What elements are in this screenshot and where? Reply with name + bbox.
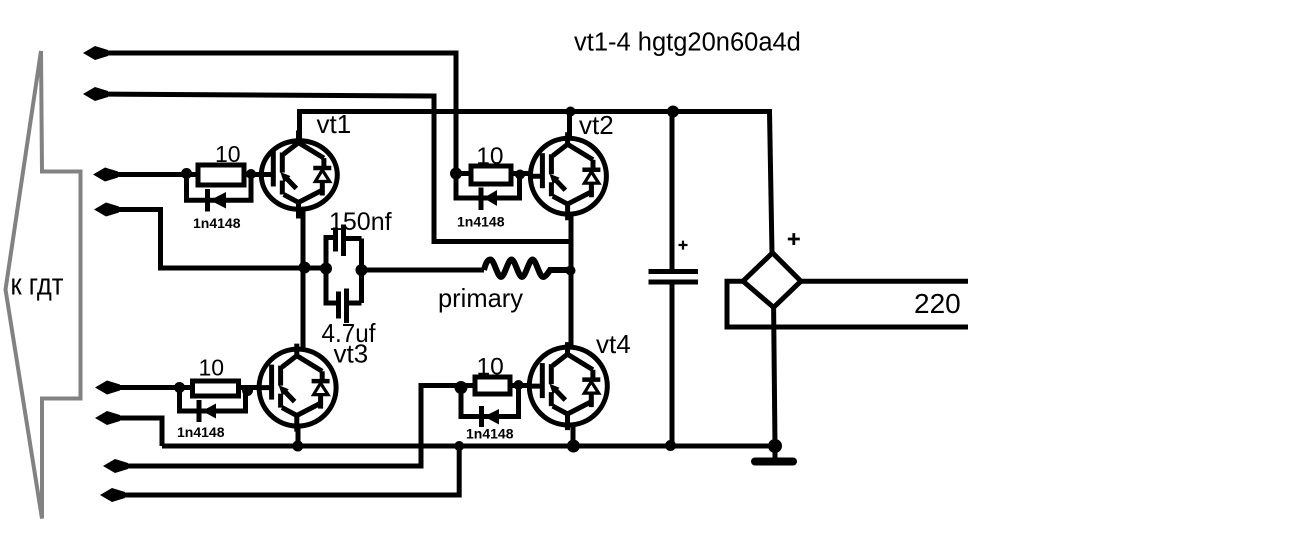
junction: R1 left / D1 anode [181,168,192,179]
wire: vt2 emitter to vt4 collector [569,202,574,356]
wire: bottom emitter rail [162,444,775,449]
wire: 220 mains upper line [801,279,968,284]
diode D1 1n4148 cathode bar [205,189,210,212]
junction: C1/C2 left terminal [320,263,332,275]
capacitor C2 4.7uf leads [326,269,362,304]
wire: D3 bypass loop [180,388,246,412]
big left block arrow to gate-drive transformer [6,51,81,519]
junction: R3 left / D3 anode [174,382,185,393]
svg-text:vt4: vt4 [596,329,631,359]
junction: R4 left / D4 anode [455,381,468,394]
svg-text:150nf: 150nf [329,208,392,236]
svg-text:220: 220 [914,288,961,319]
capacitor C2 4.7uf plates [339,289,347,324]
svg-text:vt1-4 hgtg20n60a4d: vt1-4 hgtg20n60a4d [574,29,801,57]
svg-text:1n4148: 1n4148 [466,426,514,442]
capacitor C3 electrolytic leads [670,109,675,446]
diode D2 1n4148 cathode bar [479,188,484,211]
wire: vt2 gate line [456,171,531,176]
wire: gate-drive line 2 to vt2 emitter return [93,94,572,242]
wire: vt2 collector lead [567,109,572,144]
diode D1 1n4148 triangle [210,192,226,209]
junction: R3 right / vt3 gate [242,385,253,396]
svg-text:10: 10 [476,143,503,170]
junction: gate-drive return on bottom rail [454,441,464,451]
inductor L1 primary winding [484,260,571,278]
junction: R2 right / vt2 gate [515,170,525,180]
wire: gate-drive line 1 to vt2 gate [93,53,456,174]
diode D4 1n4148 triangle [484,409,499,425]
svg-text:vt2: vt2 [579,110,614,140]
wire: bridge minus to ground [774,307,775,446]
wire: gate-drive line 4 to vt1 emitter midpoint [104,210,329,269]
junction: C3 top on top rail [667,106,679,118]
diode D3 1n4148 triangle [202,404,216,419]
capacitor C1 150nf leads [326,238,362,269]
resistor R3 (vt3 gate, 10 ohm) [193,381,239,396]
bridge rectifier BR1 diamond [743,253,801,308]
junction: C1/C2 right terminal [356,264,368,276]
wire: D2 bypass loop [456,174,520,199]
transistor vt1 (IGBT) [259,131,337,219]
junction: R4 right / vt4 gate [514,380,524,390]
diode D4 1n4148 cathode bar [479,406,484,427]
wire: gate-drive line 8 to vt4 emitter rail [110,446,459,495]
junction: vt2 collector on top rail [566,107,576,117]
wire: 220 mains lower line [727,281,968,327]
junction: R1 right / vt1 gate [246,169,256,179]
wire: gate-drive line 6 to vt3 emitter rail [105,418,162,446]
resistor R1 (vt1 gate, 10 ohm) [198,165,244,185]
junction: right half-bridge midpoint node B [566,266,576,276]
diode D3 1n4148 cathode bar [197,400,202,422]
wire: top collector rail from vt1 collector to bridge plus [300,112,773,254]
ground [755,439,793,462]
wire: D4 bypass loop [461,386,519,417]
svg-text:1n4148: 1n4148 [177,424,225,440]
junction: R2 left / D2 anode [450,168,462,180]
transistor vt3 (IGBT) [258,344,337,432]
svg-text:к гдт: к гдт [11,267,64,302]
junction: left half-bridge midpoint node A [299,262,311,274]
wire: D1 bypass loop [187,174,252,201]
svg-text:10: 10 [477,354,504,381]
junction: vt4 emitter on bottom rail [567,440,580,453]
wire: gate-drive line 7 to vt4 gate [113,386,529,467]
transistor vt4 (IGBT) [528,342,607,430]
junction: C3 bottom on bottom rail [665,440,676,451]
svg-text:1n4148: 1n4148 [193,215,241,231]
wire: vt1 emitter to vt3 collector [301,200,306,358]
capacitor C3 electrolytic plates [649,272,699,283]
node: C3 plus sign [679,241,688,250]
wire: gate-drive line 3 to vt1 gate [103,172,262,177]
node: BR1 plus sign [788,233,800,245]
svg-text:1n4148: 1n4148 [457,214,505,230]
svg-text:10: 10 [199,355,225,381]
wire: vt4 emitter lead [571,412,576,446]
wire: mid line from caps to inductor [362,239,485,271]
resistor R4 (vt4 gate, 10 ohm) [475,377,510,394]
wire: vt3 emitter lead [296,414,301,446]
junction: vt3 emitter on bottom rail [292,441,303,452]
svg-text:10: 10 [215,141,241,167]
svg-text:vt3: vt3 [334,339,369,369]
capacitor C1 150nf plates [336,225,344,257]
diode D2 1n4148 triangle [484,190,498,206]
svg-text:vt1: vt1 [317,109,352,139]
transistor vt2 (IGBT) [528,132,606,220]
svg-text:primary: primary [438,283,523,313]
resistor R2 (vt2 gate, 10 ohm) [471,166,511,184]
wire: gate-drive line 5 to vt3 gate [105,385,258,390]
